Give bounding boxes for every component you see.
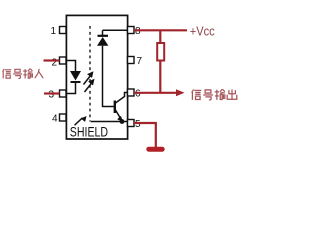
- svg-text:4: 4: [52, 114, 58, 125]
- wire shield bottom to emitter to pin 5: [91, 121, 128, 123]
- pin 4: [60, 114, 67, 121]
- resistor R1: [159, 30, 161, 43]
- pin 7: [128, 57, 135, 64]
- pin 2: [60, 57, 67, 64]
- wire pin 6 to signal output: [134, 92, 177, 94]
- transistor Q1: [114, 101, 116, 114]
- light arrow a: [84, 71, 94, 84]
- pin 1: [60, 27, 67, 34]
- LED D1: [70, 71, 81, 81]
- svg-text:5: 5: [135, 119, 141, 130]
- wire LED cathode to pin3: [67, 82, 76, 94]
- svg-text:8: 8: [135, 26, 141, 37]
- svg-text:+Vcc: +Vcc: [190, 24, 215, 39]
- light arrow b: [85, 79, 95, 92]
- shield dashed line: [89, 26, 91, 122]
- svg-text:2: 2: [51, 58, 57, 69]
- wire signal input to pin 3: [44, 92, 60, 94]
- node emitter junction dot: [120, 119, 125, 124]
- svg-text:1: 1: [50, 26, 56, 37]
- svg-text:6: 6: [135, 89, 141, 100]
- svg-text:3: 3: [48, 90, 54, 101]
- ground: [146, 147, 164, 152]
- label signal input (信号输入): [3, 69, 44, 79]
- wire photodiode anode to transistor base: [103, 46, 114, 107]
- op-amp U1 optocoupler body: [66, 15, 127, 139]
- svg-text:SHIELD: SHIELD: [70, 124, 108, 140]
- photodiode D2: [102, 30, 104, 36]
- output arrowhead: [176, 89, 185, 96]
- pin 8: [128, 27, 135, 34]
- wire pin 5 to ground: [134, 123, 156, 148]
- svg-text:7: 7: [137, 56, 143, 67]
- SHIELD pointer arrow: [75, 116, 87, 125]
- label signal output (信号输出): [192, 89, 237, 100]
- wire photodiode cathode to pin 8: [103, 29, 128, 31]
- pin 6: [128, 89, 135, 96]
- wire signal input to pin 2: [44, 59, 60, 61]
- pin 3: [60, 90, 67, 97]
- wire pin2 to LED anode: [67, 61, 76, 72]
- pin 5: [128, 120, 135, 127]
- wire pin 8 to +Vcc: [134, 29, 187, 31]
